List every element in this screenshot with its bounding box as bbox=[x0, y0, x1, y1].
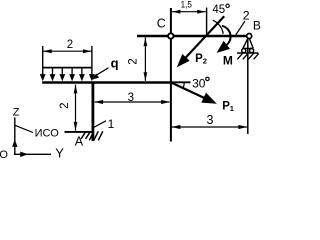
support A hatching bbox=[81, 131, 103, 140]
svg-text:Y: Y bbox=[55, 146, 64, 160]
svg-text:A: A bbox=[75, 135, 84, 149]
30deg reference stub bbox=[170, 81, 191, 83]
svg-text:2: 2 bbox=[67, 39, 73, 51]
lower beam bbox=[42, 81, 171, 84]
svg-text:3: 3 bbox=[207, 113, 214, 127]
svg-text:ИСО: ИСО bbox=[35, 128, 60, 140]
45deg arc bbox=[213, 20, 223, 34]
svg-text:1,5: 1,5 bbox=[181, 0, 192, 10]
moment M arc bbox=[222, 26, 231, 47]
support A ground line bbox=[65, 131, 93, 133]
dimension 2 right vertical bbox=[144, 37, 146, 80]
svg-text:q: q bbox=[111, 56, 119, 71]
svg-text:3: 3 bbox=[128, 92, 134, 104]
dimension 1,5 top bbox=[172, 11, 206, 13]
extension line below B bbox=[247, 39, 249, 134]
svg-text:30: 30 bbox=[192, 77, 206, 91]
svg-text:1: 1 bbox=[230, 104, 234, 113]
svg-text:C: C bbox=[157, 17, 166, 31]
force P1 at 30deg bbox=[171, 82, 206, 98]
extension line for 1,5 dim bbox=[206, 8, 208, 37]
Y axis bbox=[14, 153, 51, 155]
svg-text:1: 1 bbox=[108, 117, 115, 131]
svg-text:Z: Z bbox=[13, 107, 20, 119]
dimension 2 top-left bbox=[43, 50, 92, 52]
upper beam C to B bbox=[137, 35, 247, 37]
svg-text:M: M bbox=[223, 54, 233, 68]
dimension 2 left vertical bbox=[75, 85, 77, 131]
hinge B bbox=[247, 34, 252, 39]
column at A bbox=[92, 83, 95, 142]
svg-text:2: 2 bbox=[243, 8, 250, 22]
force P2 at 45deg bbox=[182, 16, 225, 62]
support B rollers and ground bbox=[237, 38, 259, 59]
label 1 (body 1) with leader bbox=[93, 121, 106, 128]
dimension 3 middle bbox=[95, 101, 170, 103]
load arrows bbox=[40, 74, 95, 81]
Z axis bbox=[14, 118, 16, 155]
30deg arc bbox=[183, 82, 184, 88]
ISO leader bbox=[15, 125, 33, 132]
distributed load q top line bbox=[43, 67, 92, 69]
hinge C bbox=[168, 33, 173, 38]
load end ticks bbox=[43, 46, 92, 75]
dimension 3 bottom right bbox=[172, 126, 247, 128]
svg-text:2: 2 bbox=[127, 58, 139, 64]
svg-text:2: 2 bbox=[59, 102, 71, 108]
svg-text:45: 45 bbox=[212, 4, 225, 16]
svg-text:B: B bbox=[253, 19, 261, 33]
vertical member below C bbox=[170, 8, 172, 142]
svg-text:2: 2 bbox=[203, 57, 207, 66]
svg-text:O: O bbox=[0, 149, 8, 160]
